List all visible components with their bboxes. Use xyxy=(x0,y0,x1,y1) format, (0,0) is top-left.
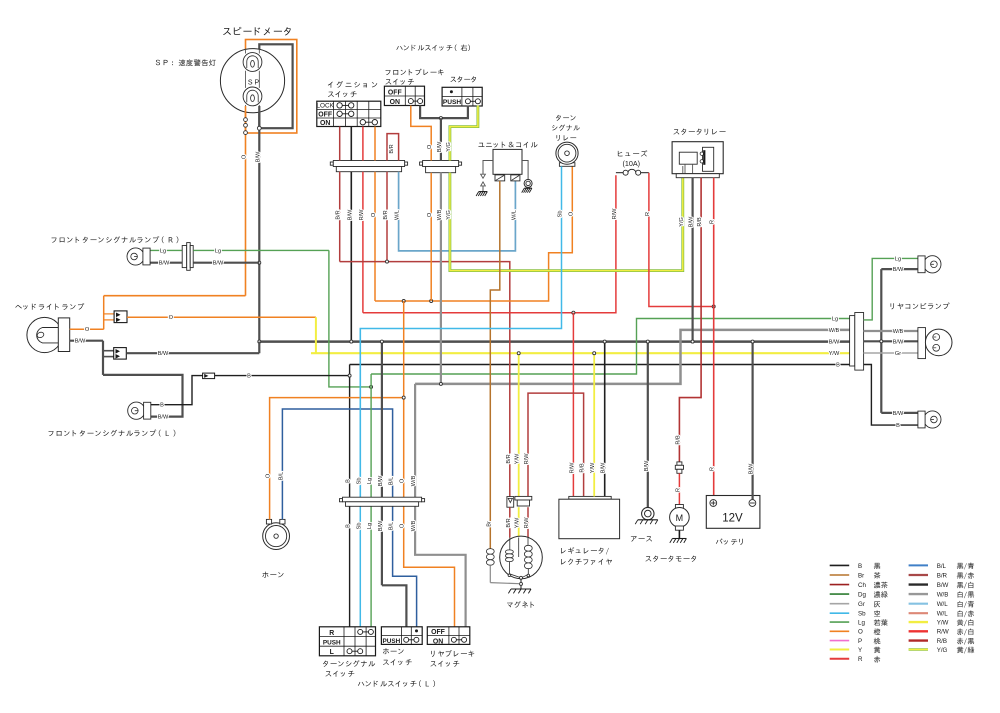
junction O horn-drop tap xyxy=(402,300,405,303)
regulator top bar xyxy=(569,496,611,499)
svg-text:W/L: W/L xyxy=(937,601,949,608)
label rear brake switch xyxy=(431,651,434,657)
turn signal switch table xyxy=(319,627,375,656)
wire B/L horn xyxy=(282,409,416,627)
label fuse xyxy=(618,151,623,156)
junction Lg join xyxy=(370,385,373,388)
wire B/W after connector xyxy=(126,352,259,354)
svg-text:Y/W: Y/W xyxy=(590,462,596,473)
starter relay contact box xyxy=(703,147,714,171)
wire R starter relay to battery xyxy=(713,178,715,496)
svg-text:R/W: R/W xyxy=(524,453,530,465)
svg-text:R/W: R/W xyxy=(569,462,575,474)
wire Br unit&coil xyxy=(490,181,500,549)
connector bubbles on O wire xyxy=(244,118,248,122)
connector 2pin O headlight xyxy=(104,313,114,315)
svg-text:Y/G: Y/G xyxy=(937,647,948,654)
starter motor xyxy=(675,505,683,509)
svg-text:B/R: B/R xyxy=(506,454,512,463)
label starter motor xyxy=(645,556,651,561)
junction B/W battery xyxy=(751,340,754,343)
svg-text:Y/W: Y/W xyxy=(829,351,840,357)
svg-text:Br: Br xyxy=(858,572,864,579)
svg-text:B/R: B/R xyxy=(389,144,395,153)
svg-text:B/W: B/W xyxy=(893,267,904,273)
earth ring terminal xyxy=(642,507,654,519)
svg-text:B/W: B/W xyxy=(829,340,840,346)
wire B/W horn drop xyxy=(381,342,383,586)
svg-text:R/B: R/B xyxy=(937,638,947,645)
wire B/W front turn R xyxy=(150,262,182,264)
svg-text:B: B xyxy=(896,423,900,429)
wire Lg rear xyxy=(864,258,918,320)
svg-text:W/B: W/B xyxy=(937,592,949,599)
svg-text:LOCK: LOCK xyxy=(316,103,334,110)
svg-text:W/B: W/B xyxy=(893,329,904,335)
headlight lamp xyxy=(27,317,62,352)
svg-text:Y/G: Y/G xyxy=(446,210,452,220)
wire Sb turn relay xyxy=(360,166,561,627)
wire B/R into magneto xyxy=(509,507,511,537)
svg-text:B: B xyxy=(858,563,862,570)
junction R battery line xyxy=(712,305,715,308)
wire R/B starter relay xyxy=(679,178,701,462)
horn switch dot xyxy=(415,630,417,632)
junction O horn link xyxy=(402,396,405,399)
wire Y/W left riser xyxy=(315,317,317,353)
svg-text:R/W: R/W xyxy=(359,209,365,221)
magneto exciter coil xyxy=(509,538,511,550)
wire O horn xyxy=(270,398,404,520)
svg-text:B/W: B/W xyxy=(159,261,170,267)
wire O ignition xyxy=(374,127,376,161)
wire W/L below connector xyxy=(399,172,516,251)
label magneto xyxy=(507,603,513,608)
svg-text:Gr: Gr xyxy=(895,351,901,357)
svg-text:Lg: Lg xyxy=(858,620,865,627)
svg-text:R/B: R/B xyxy=(580,463,586,473)
wire Y/W magneto drop xyxy=(518,353,520,496)
svg-text:O: O xyxy=(169,315,174,321)
speedometer SP warning bulb xyxy=(243,87,262,106)
wire O speedometer drop xyxy=(245,106,247,296)
rear brake ON contacts xyxy=(454,639,464,641)
svg-text:B/W: B/W xyxy=(158,415,169,421)
svg-text:Sb: Sb xyxy=(858,611,866,618)
svg-text:B/W: B/W xyxy=(158,351,169,357)
speedometer body xyxy=(220,49,284,113)
horn switch table xyxy=(381,627,422,645)
svg-text:R/W: R/W xyxy=(524,517,530,529)
label regulator xyxy=(561,548,566,554)
svg-text:B: B xyxy=(247,374,251,380)
ignition connector bar xyxy=(330,162,333,165)
svg-text:B: B xyxy=(160,403,164,409)
label front turn signal R xyxy=(52,238,57,243)
wire Y/W into magneto xyxy=(518,507,520,537)
battery box xyxy=(706,496,760,529)
svg-text:Sb: Sb xyxy=(356,523,362,530)
label handle switch L xyxy=(358,682,364,686)
svg-text:P: P xyxy=(858,638,862,645)
connector 2pin B/W headlight xyxy=(103,350,114,352)
spark plug 1 xyxy=(495,175,505,181)
label battery xyxy=(716,538,723,543)
bottom connector bar xyxy=(340,499,343,502)
svg-text:R: R xyxy=(710,467,716,471)
wire B/W headlight xyxy=(70,340,103,342)
svg-text:PUSH: PUSH xyxy=(383,638,401,645)
svg-text:M: M xyxy=(676,513,684,523)
label ignition switch xyxy=(328,82,333,88)
svg-text:W/L: W/L xyxy=(511,210,517,220)
rear connector xyxy=(850,316,855,366)
svg-text:B: B xyxy=(346,524,352,528)
wire B/W speedometer loop xyxy=(259,44,292,128)
inline connector magneto pair xyxy=(515,496,532,500)
starter switch table xyxy=(442,87,482,106)
junction B/W relay to main xyxy=(691,340,694,343)
wire B/W speedometer drop xyxy=(258,106,260,342)
label starter relay xyxy=(673,129,679,134)
svg-text:Y: Y xyxy=(858,647,862,654)
label headlight xyxy=(15,305,21,309)
svg-text:Y/W: Y/W xyxy=(515,453,521,464)
turn signal R contacts xyxy=(360,631,371,633)
svg-text:R: R xyxy=(858,656,863,663)
junction B/W ignition to main xyxy=(350,340,353,343)
svg-text:O: O xyxy=(242,154,248,159)
svg-text:B/W: B/W xyxy=(644,460,650,471)
svg-text:Y/G: Y/G xyxy=(446,142,452,152)
label earth xyxy=(631,536,637,542)
front turn signal lamp L xyxy=(128,402,145,419)
ground earth xyxy=(638,519,658,521)
junction W/B main join xyxy=(439,382,442,385)
corner junction B/W main left end xyxy=(258,340,261,343)
svg-text:R/B: R/B xyxy=(697,217,703,227)
svg-text:B/L: B/L xyxy=(389,477,395,485)
svg-text:Y/W: Y/W xyxy=(937,620,949,627)
svg-text:Lg: Lg xyxy=(832,316,838,322)
wire B rear xyxy=(864,365,918,426)
svg-text:Dg: Dg xyxy=(858,592,866,599)
svg-text:R/W: R/W xyxy=(937,629,949,636)
wire O rear-brake drop xyxy=(404,398,455,627)
wire W/B rear-brake drop xyxy=(415,384,466,627)
rear brake switch table xyxy=(427,627,470,645)
wire W/B main run xyxy=(415,330,851,384)
wire B to main xyxy=(215,375,350,377)
connector bubble on B/W wire xyxy=(257,126,261,130)
front turn signal lamp R xyxy=(127,248,144,265)
unit & coil right ground ring xyxy=(524,179,532,187)
label SP warning xyxy=(156,60,160,66)
wire R/W to regulator xyxy=(572,313,574,497)
svg-text:Sb: Sb xyxy=(356,478,362,485)
unit & coil box xyxy=(493,149,522,174)
wire R/W run to fuse xyxy=(363,175,616,313)
svg-text:B/W: B/W xyxy=(378,475,384,486)
wire Br pickup coil xyxy=(486,549,494,566)
svg-text:W/L: W/L xyxy=(937,611,949,618)
wire R/W into magneto xyxy=(527,507,529,537)
svg-text:ON: ON xyxy=(433,638,443,645)
speedometer internal wires xyxy=(245,49,247,54)
svg-text:PUSH: PUSH xyxy=(443,99,462,106)
horn switch contacts xyxy=(406,639,416,641)
junction Y/W magneto xyxy=(517,352,520,355)
starter relay flange xyxy=(676,174,719,178)
wire B/W battery xyxy=(751,342,753,500)
ground magneto xyxy=(511,588,531,590)
svg-text:O: O xyxy=(427,212,433,217)
wire B front turn L xyxy=(151,376,203,405)
svg-text:Ch: Ch xyxy=(858,582,866,589)
wire B/W main harness run xyxy=(259,340,851,343)
svg-text:L: L xyxy=(330,649,334,656)
junction B/W handle switch drop xyxy=(439,117,442,120)
wire O after connector xyxy=(127,316,316,318)
legend wire colour table xyxy=(830,564,850,566)
wire R/W ignition xyxy=(362,127,364,161)
wire R to starter motor xyxy=(678,473,680,504)
label turn signal relay xyxy=(556,115,561,121)
svg-text:O: O xyxy=(400,523,406,528)
svg-text:O: O xyxy=(400,478,406,483)
svg-text:B/R: B/R xyxy=(336,210,342,219)
speedometer top bulb xyxy=(243,53,262,72)
wire R fuse right xyxy=(649,173,714,307)
wire R/W magneto link xyxy=(528,393,584,496)
svg-text:R: R xyxy=(710,220,716,224)
magneto body xyxy=(500,536,543,579)
svg-text:B/L: B/L xyxy=(278,472,284,480)
wire Y/W main harness run xyxy=(311,352,851,354)
wire Lg front turn R to net xyxy=(193,249,329,251)
fuse 10A symbol xyxy=(623,170,628,175)
svg-text:W/B: W/B xyxy=(411,520,417,531)
wire B/W to front turn L xyxy=(103,375,183,417)
starter switch dot xyxy=(450,91,452,93)
label front brake switch xyxy=(386,70,391,75)
wire B/W ignition xyxy=(350,127,352,161)
wire B/W rear top xyxy=(881,268,918,270)
label handle switch R xyxy=(396,46,402,50)
junction B/W earth xyxy=(646,340,649,343)
turn signal relay body xyxy=(556,142,578,164)
svg-text:R/W: R/W xyxy=(612,208,618,220)
wire Lg front turn R xyxy=(150,249,182,251)
svg-text:B/W: B/W xyxy=(213,261,224,267)
junction B/W horn drop xyxy=(380,340,383,343)
wire Lg main run xyxy=(371,319,851,375)
svg-text:ON: ON xyxy=(390,99,400,106)
svg-text:Gr: Gr xyxy=(858,601,865,608)
wire B/W brake-starter link xyxy=(420,106,468,119)
wire B/W regulator xyxy=(604,342,606,497)
inline connector B/R magneto xyxy=(507,497,514,508)
wire B/R run to magneto xyxy=(340,262,510,497)
svg-text:Y/W: Y/W xyxy=(515,517,521,528)
starter relay box xyxy=(672,142,723,174)
junction O brake join xyxy=(430,300,433,303)
ground starter motor xyxy=(672,538,686,540)
svg-text:B/W: B/W xyxy=(347,209,353,220)
wire B/W earth xyxy=(647,342,649,508)
svg-text:Lg: Lg xyxy=(367,478,373,484)
starter PUSH contacts xyxy=(468,100,478,102)
svg-text:W/B: W/B xyxy=(411,475,417,486)
svg-text:B/R: B/R xyxy=(383,210,389,219)
label front turn signal L xyxy=(49,431,54,436)
svg-text:B/W: B/W xyxy=(437,141,443,152)
svg-text:B/R: B/R xyxy=(506,518,512,527)
junction B xyxy=(348,374,351,377)
junction Y/W regulator xyxy=(593,352,596,355)
unit & coil left lead spark gap xyxy=(483,161,493,175)
wire B/W front turn R to junction xyxy=(193,262,259,264)
wire B/W starter relay xyxy=(691,178,693,342)
ignition OFF contacts xyxy=(340,113,352,115)
svg-text:R: R xyxy=(329,630,334,637)
svg-text:B/W: B/W xyxy=(893,339,904,345)
label unit and coil xyxy=(478,143,484,147)
svg-text:O: O xyxy=(427,144,433,149)
rear turn lamp R xyxy=(924,256,941,273)
svg-text:12V: 12V xyxy=(722,513,743,525)
wire B main harness run xyxy=(350,364,851,366)
svg-text:B/W: B/W xyxy=(601,462,607,473)
wire Gr rear xyxy=(864,352,918,354)
svg-text:S P: S P xyxy=(248,80,260,87)
junction speedo B/W - front turn R xyxy=(258,261,261,264)
magneto charge coil xyxy=(527,538,529,546)
label horn switch xyxy=(383,648,389,654)
svg-text:Lg: Lg xyxy=(895,256,901,262)
svg-text:B: B xyxy=(346,479,352,483)
starter relay leads xyxy=(684,164,686,174)
svg-text:W/B: W/B xyxy=(437,209,443,220)
wire O headlight xyxy=(70,328,104,330)
svg-text:O: O xyxy=(85,327,90,333)
front brake ON contacts xyxy=(411,100,420,102)
junction B/R loop join xyxy=(386,260,389,263)
svg-text:B/L: B/L xyxy=(389,522,395,530)
spark plug 2 xyxy=(511,175,520,181)
magneto lighting tap xyxy=(518,538,520,558)
svg-text:Sb: Sb xyxy=(558,211,564,218)
ignition LOCK contacts xyxy=(340,104,352,106)
svg-text:OFF: OFF xyxy=(318,111,332,118)
turn signal relay base xyxy=(559,163,575,167)
svg-text:Lg: Lg xyxy=(215,248,221,254)
svg-text:Lg: Lg xyxy=(367,523,373,529)
wire Y/W regulator xyxy=(593,353,595,496)
wire O run to relay xyxy=(375,166,572,301)
label horn xyxy=(262,572,268,578)
svg-text:Br: Br xyxy=(486,521,492,527)
ground unit&coil left xyxy=(479,191,488,193)
junction B/W rear xyxy=(880,340,883,343)
svg-text:Lg: Lg xyxy=(160,248,166,254)
wire W/B handle drop xyxy=(440,118,442,160)
wire O front brake xyxy=(411,106,431,161)
svg-text:Y/G: Y/G xyxy=(679,217,685,227)
ignition ON contacts xyxy=(363,121,375,123)
starter relay coil box xyxy=(679,152,697,164)
label starter switch xyxy=(450,77,456,82)
inline connector B xyxy=(203,373,215,379)
svg-text:B/W: B/W xyxy=(893,411,904,417)
wire Lg drop xyxy=(370,374,372,627)
svg-text:O: O xyxy=(858,629,863,636)
svg-text:O: O xyxy=(371,212,377,217)
svg-text:B/W: B/W xyxy=(378,520,384,531)
battery plus terminal xyxy=(710,500,717,507)
wire B/W rear mid xyxy=(864,340,918,342)
svg-text:O: O xyxy=(568,211,574,216)
front brake switch table xyxy=(384,86,424,105)
svg-text:B/W: B/W xyxy=(689,216,695,227)
wire Sb drop continues xyxy=(359,329,361,498)
svg-text:PUSH: PUSH xyxy=(323,639,341,646)
svg-text:(10A): (10A) xyxy=(623,159,641,168)
right connector bar xyxy=(420,162,423,165)
svg-text:W/L: W/L xyxy=(395,210,401,220)
label speedometer xyxy=(223,28,231,35)
wire B/R ignition xyxy=(339,127,341,161)
svg-text:B/W: B/W xyxy=(749,463,755,474)
inline connector front turn R xyxy=(182,246,187,268)
svg-text:OFF: OFF xyxy=(431,629,445,636)
rear turn lamp L xyxy=(924,411,941,428)
wire B/R jumper loop xyxy=(387,134,399,161)
battery minus terminal xyxy=(749,500,756,507)
svg-text:B/R: B/R xyxy=(937,572,948,579)
wire O speedometer loop xyxy=(246,40,297,134)
wire Y/G starter xyxy=(450,106,478,161)
svg-text:B/W: B/W xyxy=(255,151,261,162)
svg-text:B/W: B/W xyxy=(937,582,949,589)
wire B/W rear bottom xyxy=(881,412,918,414)
turn signal L contacts xyxy=(350,650,361,652)
ground unit&coil right xyxy=(524,187,532,189)
svg-text:B/W: B/W xyxy=(75,339,86,345)
regulator box xyxy=(559,499,620,539)
label turn signal switch xyxy=(323,661,328,667)
svg-text:B/L: B/L xyxy=(937,563,947,570)
junction B/W regulator xyxy=(603,340,606,343)
svg-text:ON: ON xyxy=(320,120,330,127)
svg-text:B: B xyxy=(836,363,840,369)
svg-text:W/B: W/B xyxy=(829,328,840,334)
magneto bottom node xyxy=(520,576,523,579)
label rear combination lamp xyxy=(891,303,894,309)
wire W/B rear xyxy=(864,330,918,332)
junction R/W regulator tap xyxy=(572,311,575,314)
svg-text:R/B: R/B xyxy=(675,435,681,445)
wire B/W rear riser xyxy=(880,269,882,413)
svg-text:R: R xyxy=(675,488,681,492)
horn xyxy=(263,523,290,550)
ignition switch table xyxy=(317,101,381,126)
svg-text:R: R xyxy=(645,212,651,216)
bullet connector R/B-R xyxy=(677,462,682,465)
wire O headlight top link xyxy=(104,295,246,297)
svg-text:O: O xyxy=(266,473,272,478)
unit & coil right lead xyxy=(522,161,528,180)
